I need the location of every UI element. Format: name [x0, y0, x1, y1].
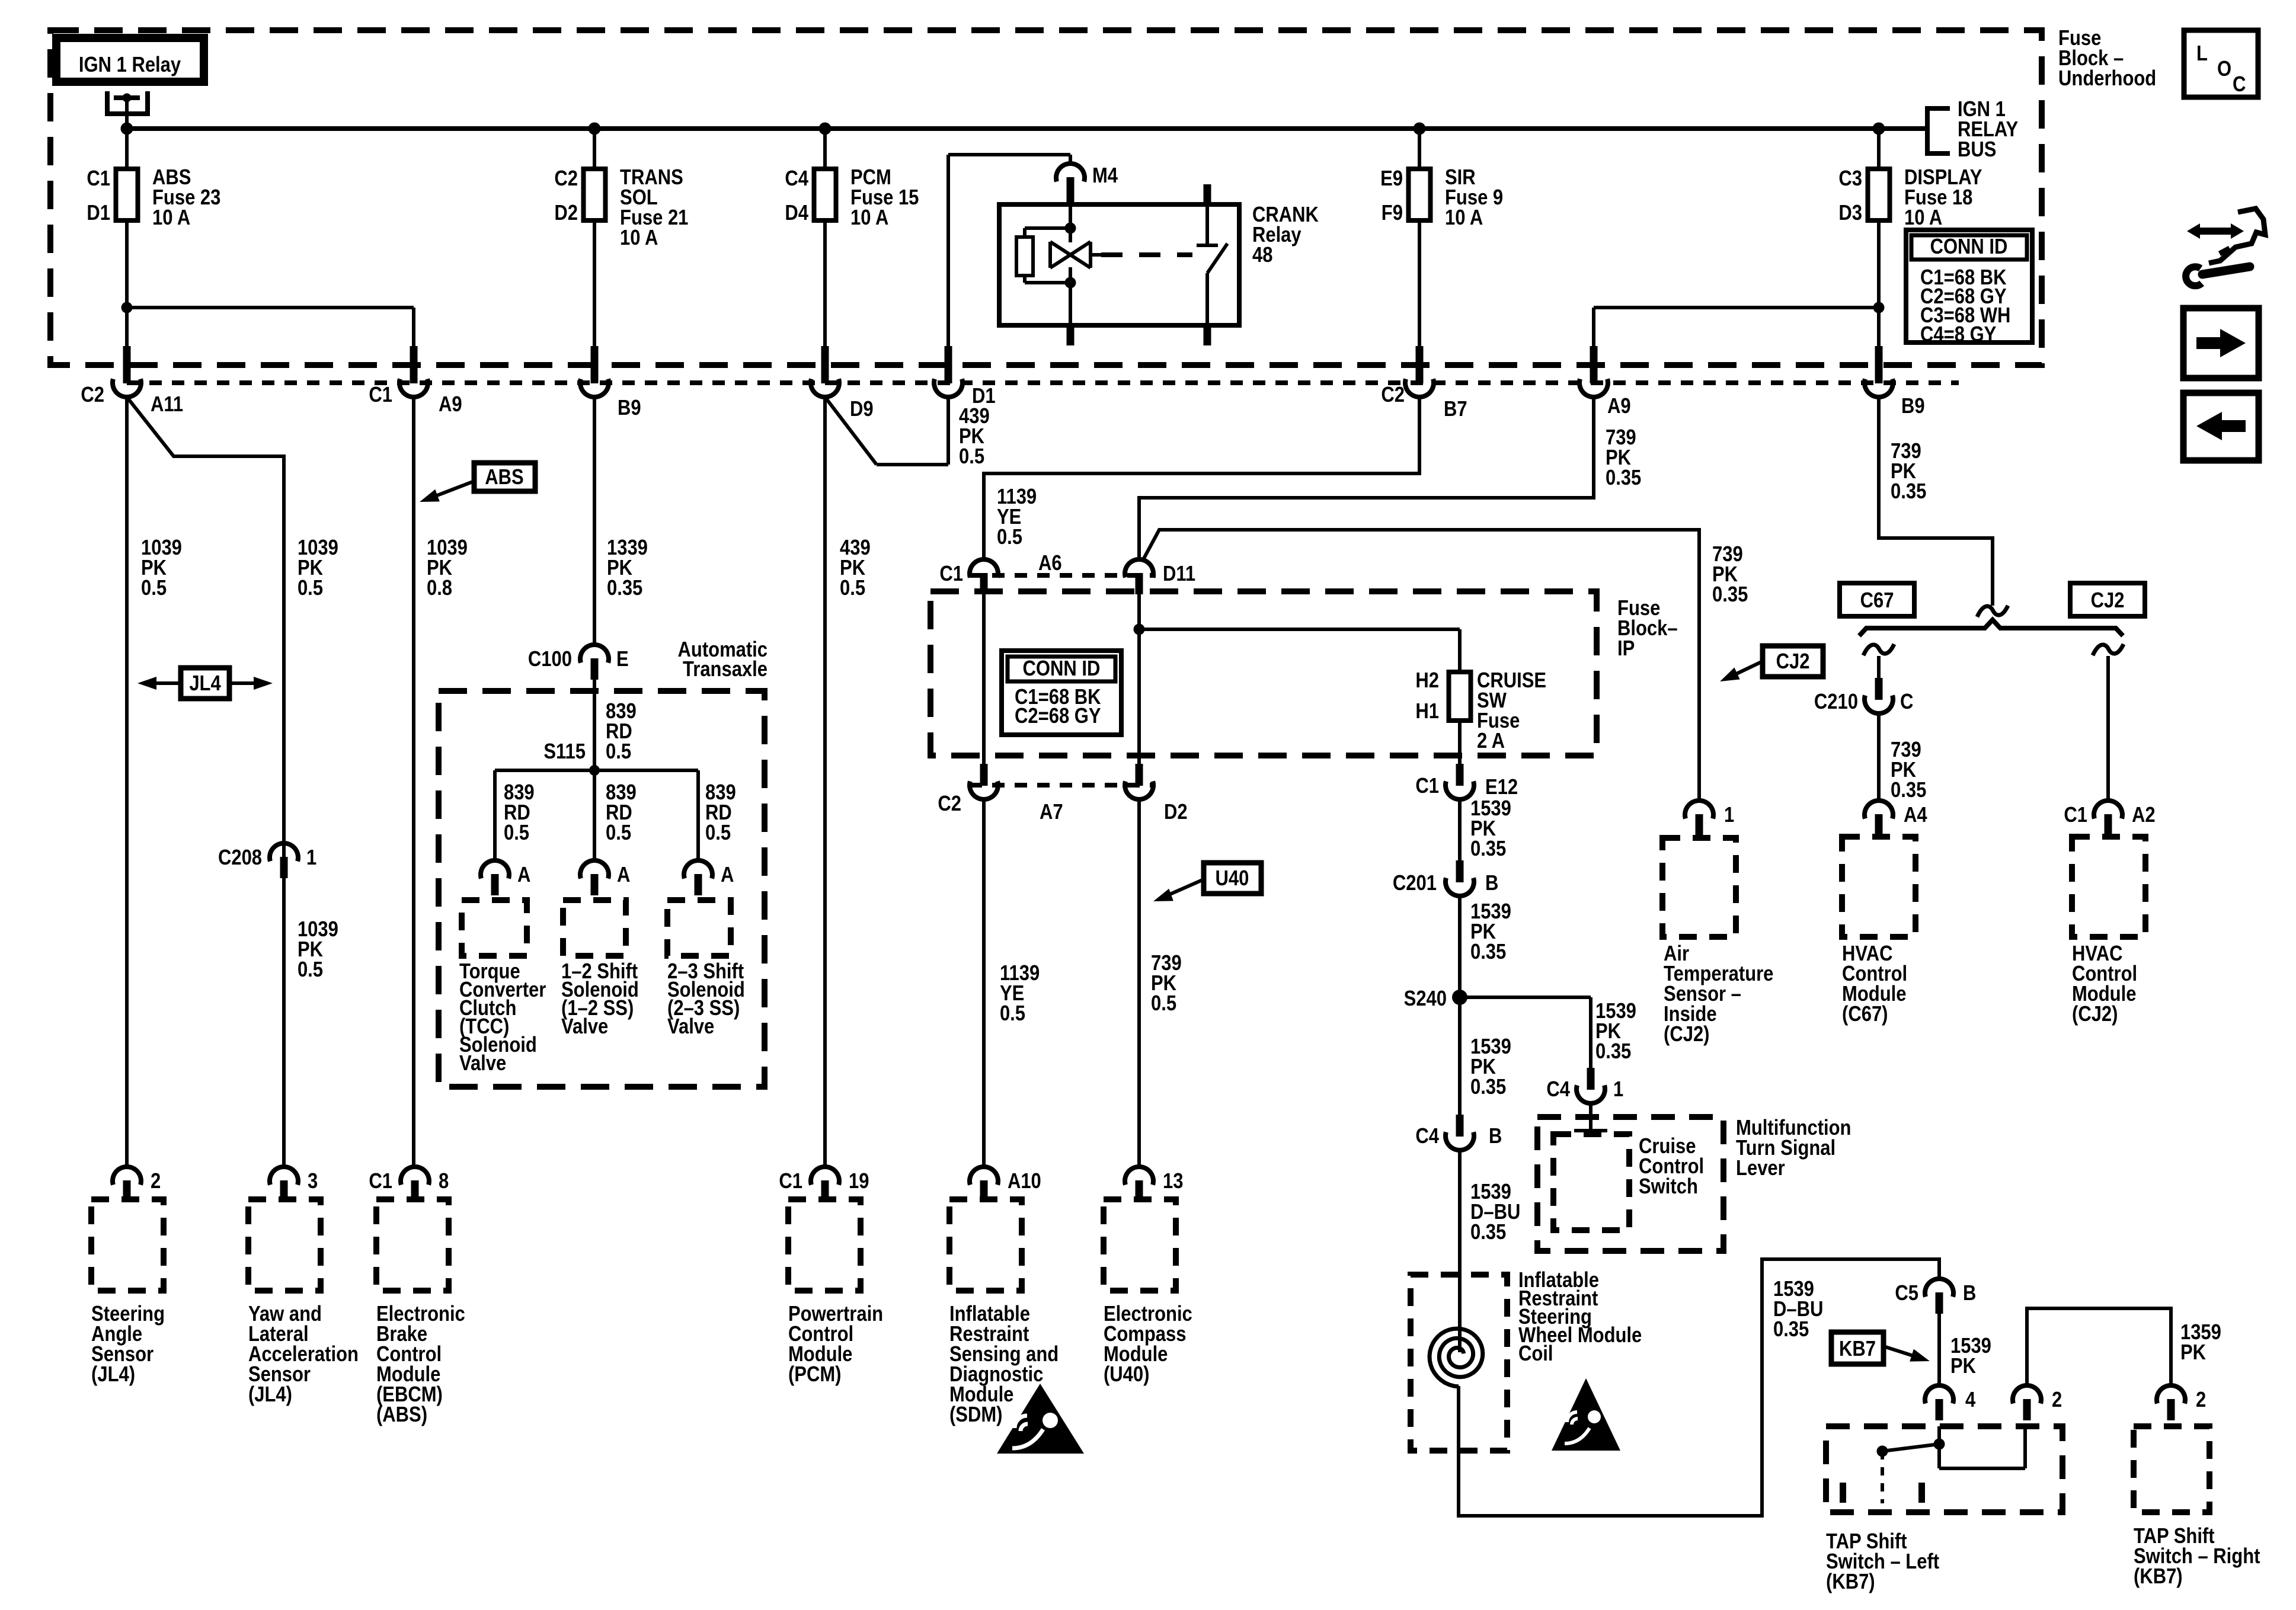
svg-text:C4=8 GY: C4=8 GY: [1920, 323, 1996, 347]
svg-text:E9: E9: [1380, 167, 1403, 191]
svg-text:C208: C208: [218, 846, 262, 870]
svg-text:0.35: 0.35: [1470, 837, 1506, 861]
svg-text:2 A: 2 A: [1477, 729, 1505, 753]
svg-text:1: 1: [306, 846, 316, 870]
svg-text:0.8: 0.8: [427, 577, 452, 600]
svg-text:CJ2: CJ2: [1776, 650, 1810, 674]
svg-text:(ABS): (ABS): [376, 1403, 427, 1427]
svg-text:C1: C1: [369, 383, 392, 407]
svg-text:PK: PK: [2180, 1341, 2206, 1365]
svg-text:(CJ2): (CJ2): [1664, 1023, 1709, 1046]
svg-text:Switch: Switch: [1639, 1175, 1698, 1199]
svg-text:0.35: 0.35: [1891, 480, 1926, 504]
svg-text:A11: A11: [151, 393, 183, 417]
svg-text:19: 19: [849, 1170, 869, 1193]
svg-text:IP: IP: [1617, 637, 1635, 661]
svg-text:ABS: ABS: [485, 466, 523, 489]
svg-text:S115: S115: [543, 740, 586, 764]
svg-text:A7: A7: [1040, 801, 1063, 824]
svg-text:D11: D11: [1163, 562, 1195, 586]
svg-text:S240: S240: [1404, 987, 1447, 1011]
svg-text:C4: C4: [785, 167, 808, 191]
svg-text:B: B: [1485, 872, 1498, 895]
svg-text:A2: A2: [2132, 804, 2156, 827]
svg-text:10 A: 10 A: [620, 226, 658, 250]
svg-text:O: O: [2217, 57, 2231, 81]
svg-text:(KB7): (KB7): [1826, 1570, 1875, 1594]
svg-text:C: C: [2233, 73, 2246, 97]
svg-text:0.35: 0.35: [1712, 583, 1748, 607]
svg-text:Lever: Lever: [1736, 1157, 1785, 1180]
svg-text:C5: C5: [1895, 1282, 1918, 1305]
svg-text:E: E: [616, 648, 629, 671]
svg-text:H1: H1: [1415, 700, 1439, 724]
svg-text:0.5: 0.5: [705, 821, 731, 845]
svg-text:10 A: 10 A: [1445, 206, 1483, 230]
svg-text:C100: C100: [528, 648, 572, 671]
svg-text:D2: D2: [554, 201, 578, 225]
svg-text:0.35: 0.35: [1595, 1040, 1631, 1064]
svg-text:0.35: 0.35: [1606, 466, 1641, 490]
svg-text:C2: C2: [554, 167, 578, 191]
svg-text:E12: E12: [1485, 776, 1518, 799]
svg-text:B9: B9: [1901, 395, 1925, 418]
svg-text:0.35: 0.35: [1470, 940, 1506, 964]
svg-text:0.5: 0.5: [298, 577, 323, 600]
svg-text:A: A: [617, 863, 630, 887]
svg-text:C1: C1: [2064, 804, 2087, 827]
svg-text:0.5: 0.5: [959, 445, 984, 469]
svg-text:48: 48: [1252, 244, 1272, 267]
svg-text:JL4: JL4: [189, 672, 221, 696]
svg-text:B7: B7: [1444, 398, 1467, 421]
svg-text:0.5: 0.5: [298, 958, 323, 982]
svg-text:C1: C1: [1415, 774, 1439, 798]
svg-text:0.35: 0.35: [1470, 1221, 1506, 1244]
svg-text:C210: C210: [1814, 690, 1858, 714]
svg-text:C4: C4: [1415, 1125, 1439, 1148]
svg-text:C2: C2: [1381, 383, 1405, 407]
svg-text:C4: C4: [1546, 1078, 1570, 1102]
svg-text:(CJ2): (CJ2): [2072, 1003, 2118, 1026]
svg-text:CONN ID: CONN ID: [1930, 235, 2008, 259]
svg-text:C2: C2: [938, 792, 961, 816]
svg-text:C: C: [1900, 690, 1913, 714]
svg-text:B: B: [1489, 1125, 1502, 1148]
svg-text:C1: C1: [369, 1170, 392, 1193]
svg-text:10 A: 10 A: [152, 206, 190, 230]
svg-text:A: A: [721, 863, 734, 887]
svg-text:(KB7): (KB7): [2134, 1565, 2183, 1589]
svg-text:L: L: [2196, 42, 2208, 66]
svg-text:2: 2: [151, 1170, 161, 1193]
svg-text:13: 13: [1163, 1170, 1183, 1193]
svg-text:10 A: 10 A: [1904, 206, 1942, 230]
svg-text:CJ2: CJ2: [2091, 589, 2125, 613]
svg-text:8: 8: [439, 1170, 449, 1193]
svg-text:Valve: Valve: [561, 1015, 608, 1039]
svg-text:CONN ID: CONN ID: [1023, 657, 1101, 681]
svg-text:A9: A9: [1607, 395, 1631, 418]
svg-text:0.35: 0.35: [1470, 1076, 1506, 1099]
svg-text:3: 3: [308, 1170, 318, 1193]
svg-text:D9: D9: [850, 398, 874, 421]
svg-text:2: 2: [2196, 1388, 2206, 1412]
svg-text:0.5: 0.5: [1000, 1002, 1025, 1026]
svg-text:C1: C1: [939, 562, 963, 586]
svg-text:(PCM): (PCM): [788, 1363, 841, 1387]
svg-text:A6: A6: [1038, 552, 1062, 575]
svg-text:KB7: KB7: [1839, 1337, 1876, 1361]
svg-text:Underhood: Underhood: [2058, 67, 2156, 91]
svg-text:D2: D2: [1164, 801, 1188, 824]
svg-text:(JL4): (JL4): [248, 1383, 292, 1407]
svg-text:H2: H2: [1415, 669, 1439, 693]
svg-text:0.5: 0.5: [997, 526, 1022, 549]
svg-text:A10: A10: [1008, 1170, 1041, 1193]
svg-text:A4: A4: [1904, 804, 1927, 827]
svg-text:D4: D4: [785, 201, 808, 225]
svg-text:IGN 1 Relay: IGN 1 Relay: [79, 53, 181, 77]
svg-text:10 A: 10 A: [850, 206, 888, 230]
svg-text:0.35: 0.35: [1891, 779, 1926, 802]
svg-text:B9: B9: [618, 396, 641, 420]
svg-text:(SDM): (SDM): [949, 1403, 1002, 1427]
svg-text:4: 4: [1965, 1388, 1976, 1412]
svg-text:F9: F9: [1382, 201, 1403, 225]
svg-text:C67: C67: [1860, 589, 1894, 613]
svg-text:(U40): (U40): [1104, 1363, 1149, 1387]
svg-text:0.5: 0.5: [606, 740, 631, 764]
svg-text:A9: A9: [439, 393, 462, 417]
svg-text:C1: C1: [779, 1170, 802, 1193]
svg-text:0.5: 0.5: [1151, 992, 1176, 1016]
svg-text:C3: C3: [1838, 167, 1862, 191]
svg-text:Valve: Valve: [667, 1015, 714, 1039]
svg-text:0.35: 0.35: [1773, 1318, 1809, 1342]
svg-text:Valve: Valve: [459, 1052, 506, 1076]
svg-text:(JL4): (JL4): [91, 1363, 135, 1387]
svg-text:B: B: [1963, 1282, 1976, 1305]
svg-text:(C67): (C67): [1842, 1003, 1888, 1026]
svg-text:U40: U40: [1216, 867, 1249, 891]
svg-text:C2: C2: [81, 383, 104, 407]
svg-text:1: 1: [1724, 804, 1734, 827]
svg-text:2: 2: [2052, 1388, 2062, 1412]
svg-text:0.5: 0.5: [606, 821, 631, 845]
svg-text:0.5: 0.5: [141, 577, 167, 600]
svg-text:C1: C1: [87, 167, 110, 191]
svg-text:C201: C201: [1393, 872, 1437, 895]
svg-text:0.5: 0.5: [504, 821, 529, 845]
svg-text:M4: M4: [1092, 164, 1118, 188]
svg-text:BUS: BUS: [1958, 138, 1996, 162]
svg-text:Transaxle: Transaxle: [683, 658, 768, 681]
svg-text:A: A: [517, 863, 530, 887]
svg-text:D3: D3: [1838, 201, 1862, 225]
svg-text:D1: D1: [87, 201, 110, 225]
svg-text:C2=68 GY: C2=68 GY: [1015, 705, 1101, 728]
svg-text:PK: PK: [1950, 1355, 1976, 1378]
svg-text:1: 1: [1613, 1078, 1623, 1102]
svg-text:0.35: 0.35: [607, 577, 642, 600]
svg-text:Coil: Coil: [1518, 1342, 1553, 1366]
svg-text:0.5: 0.5: [840, 577, 865, 600]
